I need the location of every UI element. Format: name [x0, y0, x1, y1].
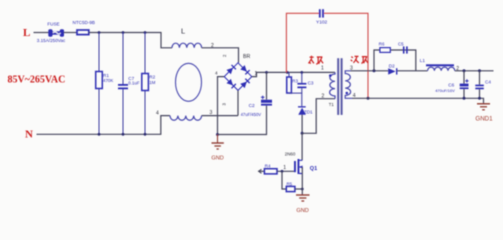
transformer primary polarity dot	[329, 74, 332, 77]
off-sheet stub to gate	[259, 169, 262, 173]
wire red Y-cap path left	[286, 13, 319, 72]
inductor L1 core bar	[426, 64, 454, 66]
svg-text:C4: C4	[485, 80, 491, 85]
wire snubber bottom	[289, 93, 302, 106]
resistor NTC	[77, 30, 89, 35]
node junction C3 top	[300, 71, 303, 74]
svg-text:470K: 470K	[103, 78, 113, 83]
node junction top 1	[98, 31, 101, 34]
svg-text:NTC5D-9B: NTC5D-9B	[73, 20, 95, 25]
wire ground to C2	[218, 106, 267, 135]
svg-text:Q1: Q1	[310, 166, 317, 172]
svg-text:L1: L1	[420, 58, 426, 63]
svg-text:C2: C2	[249, 103, 255, 109]
svg-text:85V~265VAC: 85V~265VAC	[8, 75, 66, 86]
wire gate node down	[282, 171, 286, 189]
node junction ground	[216, 133, 219, 136]
svg-text:BR: BR	[243, 54, 250, 60]
svg-text:3.15A/250Vac: 3.15A/250Vac	[37, 38, 66, 43]
capacitor C7 leads	[122, 33, 124, 85]
node junction source	[301, 188, 304, 191]
node junction C2 top	[265, 71, 268, 74]
svg-text:GND: GND	[296, 208, 308, 214]
svg-text:4: 4	[215, 71, 218, 76]
inductor L bottom winding	[170, 116, 202, 121]
wire R5 to source	[295, 188, 302, 190]
ground GND1 secondary	[477, 103, 490, 105]
wire drain node to transformer pin2	[302, 99, 335, 134]
wire source down	[301, 167, 303, 195]
transformer core	[337, 58, 339, 115]
wire R4 to gate	[277, 170, 294, 172]
wire secondary top rail	[351, 70, 389, 72]
capacitor C2	[261, 100, 272, 103]
ground GND primary	[217, 135, 219, 143]
label 次级 secondary	[351, 56, 368, 63]
wire top rail	[89, 33, 173, 48]
ground GND mosfet	[296, 194, 310, 196]
wire bridge plus to rail	[252, 72, 335, 76]
svg-text:1: 1	[321, 65, 324, 71]
node junction N 1	[98, 133, 101, 136]
resistor R6	[380, 48, 390, 53]
svg-text:0.1uF: 0.1uF	[128, 81, 140, 86]
svg-text:1M: 1M	[149, 80, 155, 85]
wire output snubber loop	[374, 50, 380, 71]
node junction C6 top	[463, 69, 466, 72]
svg-text:470uF/16V: 470uF/16V	[435, 88, 455, 93]
capacitor C4	[475, 85, 484, 87]
diode bridge top-left	[227, 64, 237, 74]
transformer T1 secondary winding	[345, 71, 352, 99]
wire secondary bottom rail	[352, 98, 484, 103]
resistor R2	[142, 74, 149, 91]
wire L1 to output	[455, 70, 494, 72]
node junction snubber left	[373, 69, 376, 72]
bridge rectifier frame	[224, 63, 252, 91]
svg-text:C3: C3	[308, 81, 314, 86]
svg-text:L: L	[181, 27, 185, 36]
svg-text:1: 1	[283, 165, 286, 171]
diode bridge top-right	[240, 65, 250, 75]
capacitor C2 plus sign	[261, 96, 265, 100]
inductor L core circle	[176, 63, 202, 101]
node junction top 2	[122, 31, 125, 34]
capacitor C6	[460, 84, 469, 87]
transistor Q1	[294, 161, 296, 172]
node junction N 3	[144, 133, 147, 136]
wire drain vertical	[301, 133, 303, 160]
node junction drain	[301, 132, 304, 135]
diode ZD1	[298, 106, 306, 107]
inductor L1	[428, 67, 455, 71]
transformer secondary polarity dot	[346, 92, 349, 95]
svg-text:2N60: 2N60	[285, 152, 296, 157]
capacitor C5	[403, 46, 405, 53]
svg-text:R4: R4	[265, 164, 271, 169]
resistor R1 leads	[98, 33, 100, 72]
capacitor C7	[118, 84, 128, 86]
wire choke to bridge top	[202, 48, 239, 63]
wire bridge bottom vertex	[237, 90, 239, 115]
svg-text:R2: R2	[149, 74, 155, 79]
wire D2 to L1	[397, 70, 427, 72]
diode bridge bottom-right	[240, 78, 250, 88]
svg-text:D2: D2	[389, 63, 395, 68]
diode D2	[388, 68, 395, 74]
wire bridge minus to ground	[218, 77, 225, 135]
resistor R3 lead	[288, 72, 290, 77]
label 初级 primary	[309, 56, 324, 64]
svg-text:N: N	[25, 129, 33, 141]
svg-text:2: 2	[322, 94, 325, 100]
svg-text:GND: GND	[211, 156, 223, 162]
svg-text:4: 4	[156, 111, 159, 117]
node junction N 2	[122, 133, 125, 136]
resistor R1	[96, 72, 103, 89]
svg-text:GND1: GND1	[475, 116, 493, 123]
capacitor Y1	[319, 9, 321, 17]
capacitor C3 lead	[301, 72, 303, 83]
node junction C4 bottom	[478, 97, 481, 100]
node junction gate	[281, 170, 284, 173]
wire fuse to NTC	[64, 32, 77, 34]
wire choke to bridge bottom	[202, 115, 238, 117]
resistor R4	[264, 169, 277, 174]
capacitor C2 lead	[266, 72, 268, 99]
wire ZD1 to drain node	[301, 115, 303, 134]
diode bridge bottom-left	[227, 79, 237, 89]
resistor R3	[287, 77, 292, 93]
node junction red left	[286, 71, 289, 74]
capacitor C4 lead	[479, 71, 481, 85]
node junction C4 top	[478, 69, 481, 72]
svg-text:R3: R3	[292, 79, 298, 84]
svg-text:L: L	[23, 27, 30, 39]
node junction top 3	[144, 31, 147, 34]
transformer T1 primary winding	[330, 72, 335, 98]
svg-text:FUSE: FUSE	[47, 22, 59, 27]
node junction C6 bottom	[463, 97, 466, 100]
svg-text:T1: T1	[329, 102, 335, 107]
fuse F1	[48, 29, 52, 36]
wire L to fuse	[34, 32, 49, 34]
svg-text:ZD1: ZD1	[304, 109, 313, 114]
svg-text:C5: C5	[398, 42, 404, 47]
inductor L top winding	[172, 43, 202, 48]
wire red Y-cap path right	[324, 13, 368, 98]
node junction red right	[367, 97, 370, 100]
svg-text:47uF/450V: 47uF/450V	[241, 112, 262, 117]
wire N rail	[37, 116, 171, 135]
resistor R5	[286, 186, 295, 191]
svg-text:Y102: Y102	[316, 20, 328, 26]
capacitor C6 lead	[463, 71, 465, 84]
resistor R2 leads	[144, 33, 146, 74]
capacitor C3	[297, 83, 306, 85]
capacitor C6 plus sign	[465, 79, 468, 82]
svg-text:R6: R6	[379, 42, 385, 47]
